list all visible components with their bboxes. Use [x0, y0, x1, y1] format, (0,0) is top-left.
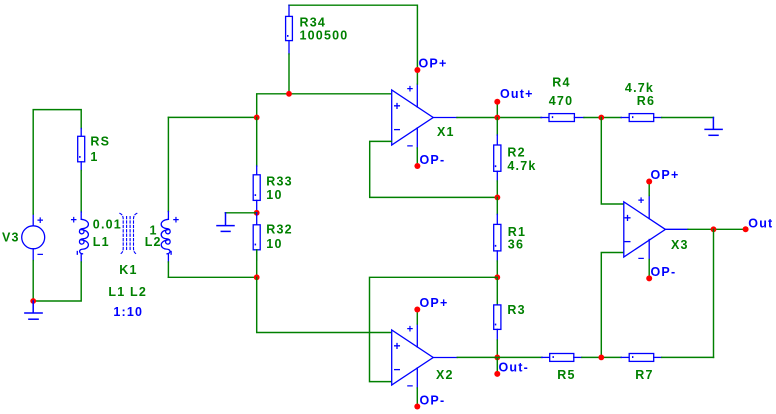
wire L2 top: [167, 117, 169, 211]
op-amp X1: [392, 84, 457, 148]
node R4/R6 junction: [598, 115, 604, 121]
svg-text:+: +: [173, 215, 179, 227]
node X2 output junction: [494, 355, 500, 361]
svg-text:−: −: [407, 141, 413, 153]
svg-text:OP-: OP-: [651, 265, 677, 279]
svg-text:R7: R7: [635, 368, 653, 382]
ground left: [25, 301, 42, 319]
svg-text:4.7k: 4.7k: [625, 81, 654, 95]
svg-text:L1 L2: L1 L2: [108, 285, 147, 299]
wire to R1: [496, 197, 498, 214]
node OP+ X1: [414, 67, 420, 73]
wire OP- stub X1: [416, 148, 418, 166]
wire R3 bottom: [496, 340, 498, 357]
wire R4 to R6: [584, 117, 621, 119]
wire OP+ stub X2: [416, 310, 418, 325]
node OP- X1: [414, 163, 420, 169]
svg-text:V3: V3: [2, 231, 20, 245]
svg-text:L1: L1: [93, 235, 110, 249]
resistor R4: [541, 114, 584, 122]
node R34 bottom junction: [286, 91, 292, 97]
svg-text:RS: RS: [90, 135, 110, 149]
ground middle: [217, 213, 234, 232]
wire X1 output: [457, 117, 542, 119]
wire R33 top: [256, 117, 258, 166]
svg-text:0.01: 0.01: [93, 217, 122, 231]
wire L2 top to node: [168, 116, 256, 118]
svg-text:470: 470: [549, 94, 573, 108]
resistor R34: [286, 16, 293, 54]
wire R32 bottom: [256, 250, 258, 277]
svg-text:100500: 100500: [300, 28, 349, 42]
node Out-: [496, 357, 498, 374]
wire R7 to X3 output: [662, 356, 714, 358]
wire L1 bottom: [33, 262, 81, 301]
wire X1 noninverting input from R33/R34 node: [257, 94, 392, 118]
node Out+: [496, 102, 498, 118]
node R1/R3 junction: [494, 274, 500, 280]
wire OP- stub X2: [416, 388, 418, 407]
wire R34 bottom to node: [288, 54, 290, 94]
svg-text:Out: Out: [748, 216, 773, 230]
wire OP+ stub X1: [416, 70, 418, 84]
wire Out+ node down to R2: [496, 118, 498, 136]
wire V3 bottom: [32, 261, 34, 302]
resistor R7: [621, 354, 662, 362]
resistor R3: [494, 305, 501, 340]
svg-text:X3: X3: [671, 238, 689, 252]
node Out: [743, 226, 749, 232]
svg-text:10: 10: [266, 237, 282, 251]
resistor R2: [494, 135, 501, 181]
svg-text:Out+: Out+: [500, 87, 534, 101]
wire X2 noninverting input: [257, 277, 392, 332]
node OP- X3: [646, 275, 652, 281]
svg-text:R2: R2: [507, 145, 525, 159]
node ground junction: [30, 298, 36, 304]
svg-text:−: −: [638, 253, 644, 265]
op-amp X3: [624, 196, 688, 260]
resistor R5: [542, 354, 582, 362]
svg-text:X1: X1: [437, 125, 455, 139]
node L2/R33 junction: [254, 115, 260, 121]
wire X2 feedback: [370, 277, 498, 381]
svg-text:R3: R3: [507, 303, 525, 317]
wire X3 output: [688, 228, 746, 230]
svg-text:+: +: [407, 83, 413, 95]
svg-text:R4: R4: [552, 75, 570, 89]
wire X3 noninverting input: [601, 118, 623, 205]
voltage source V3: [22, 214, 45, 261]
wire V3 loop top: [33, 110, 81, 214]
svg-text:X2: X2: [436, 368, 454, 382]
wire RS to L1: [80, 171, 82, 213]
svg-text:10: 10: [266, 188, 282, 202]
node R32 bottom junction: [254, 274, 260, 280]
svg-text:+: +: [37, 215, 43, 227]
wire L2 bottom to R32 node: [168, 276, 256, 278]
ground right: [705, 118, 722, 136]
svg-text:OP+: OP+: [419, 57, 448, 71]
resistor R1: [494, 214, 501, 261]
svg-text:R6: R6: [637, 94, 655, 108]
svg-text:+: +: [638, 195, 644, 207]
op-amp X2: [392, 324, 458, 388]
resistor RS: [78, 129, 85, 171]
node OP+ X2: [414, 307, 420, 313]
wire R6 to ground: [662, 117, 714, 119]
resistor R6: [621, 114, 662, 122]
svg-text:Out-: Out-: [499, 360, 529, 374]
svg-text:+: +: [394, 99, 401, 113]
wire to R3: [496, 277, 498, 305]
svg-text:−: −: [624, 234, 631, 248]
node OP- X2: [414, 404, 420, 410]
svg-text:36: 36: [508, 238, 524, 252]
svg-text:1:10: 1:10: [113, 305, 143, 319]
wire X2 output: [457, 356, 542, 358]
svg-text:−: −: [407, 381, 413, 393]
wire OP+ stub X3: [648, 182, 650, 196]
svg-text:R32: R32: [266, 223, 293, 237]
svg-text:+: +: [394, 339, 401, 353]
node R33/R32 junction: [254, 210, 260, 216]
wire R34 top pin: [288, 5, 290, 16]
svg-text:+: +: [71, 215, 77, 227]
wire X3 feedback to R7: [713, 229, 715, 357]
inductor L2: [161, 212, 171, 263]
svg-text:+: +: [624, 211, 631, 225]
svg-text:K1: K1: [119, 263, 137, 277]
wire L2 bottom: [167, 262, 169, 277]
svg-text:OP-: OP-: [420, 393, 446, 407]
svg-text:−: −: [394, 362, 401, 376]
wire R1 bottom: [496, 261, 498, 277]
inductor L1: [77, 212, 88, 262]
svg-text:R5: R5: [557, 368, 575, 382]
node OP+ X3: [646, 179, 652, 185]
node X3 output junction: [711, 226, 717, 232]
svg-text:L2: L2: [145, 235, 162, 249]
wire X1 inverting feedback: [370, 141, 498, 197]
wire X3 inverting input: [601, 253, 623, 358]
node feedback junction: [495, 195, 501, 201]
node R5/R7 junction: [598, 355, 604, 361]
wire R2 bottom to feedback node: [496, 181, 498, 197]
resistor R32: [253, 213, 260, 260]
svg-text:OP+: OP+: [651, 168, 680, 182]
svg-text:−: −: [394, 122, 401, 136]
svg-text:OP-: OP-: [420, 153, 446, 167]
wire R5 to R7: [582, 356, 621, 358]
svg-text:R33: R33: [266, 175, 293, 189]
resistor R33: [253, 175, 260, 213]
wire top rail R34 to OP+ of X1: [289, 5, 417, 70]
svg-text:1: 1: [90, 150, 98, 164]
wire OP- stub X3: [648, 260, 650, 279]
svg-text:OP+: OP+: [420, 296, 449, 310]
wire ground stub: [225, 212, 256, 214]
svg-text:−: −: [37, 249, 43, 261]
svg-text:4.7k: 4.7k: [507, 159, 536, 173]
transformer core K1: [120, 213, 137, 254]
svg-text:+: +: [407, 323, 413, 335]
node X1 output junction: [494, 115, 500, 121]
